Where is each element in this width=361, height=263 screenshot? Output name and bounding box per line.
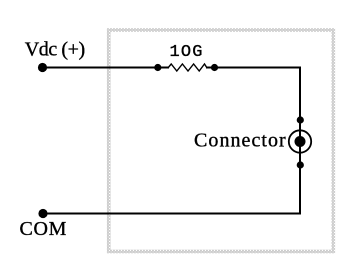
connector symbol <box>289 130 311 152</box>
node junction below connector <box>297 161 304 168</box>
svg-text:Vdc (+): Vdc (+) <box>25 39 85 61</box>
node Vdc terminal <box>38 63 47 72</box>
svg-text:COM: COM <box>20 218 68 240</box>
resistor R1 <box>154 64 218 71</box>
wire right vertical <box>299 67 301 215</box>
wire top horizontal right <box>215 67 302 69</box>
svg-text:1OG: 1OG <box>170 43 204 62</box>
wire top horizontal left <box>43 67 159 69</box>
node junction above connector <box>297 116 304 123</box>
svg-text:Connector: Connector <box>194 130 287 152</box>
wire bottom horizontal <box>43 213 301 215</box>
node COM terminal <box>38 209 47 218</box>
